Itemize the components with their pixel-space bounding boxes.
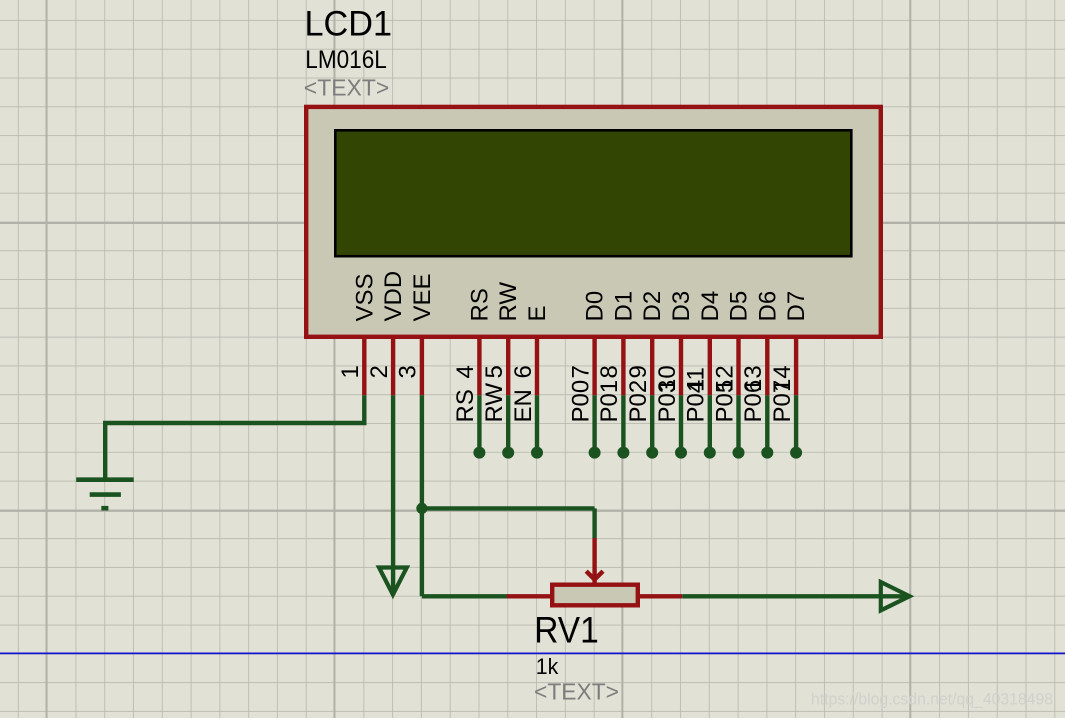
svg-text:VEE: VEE <box>409 273 436 321</box>
svg-text:<TEXT>: <TEXT> <box>534 679 619 705</box>
svg-text:P02: P02 <box>625 380 652 423</box>
svg-text:RV1: RV1 <box>534 610 599 651</box>
svg-text:LCD1: LCD1 <box>305 5 393 44</box>
svg-text:P04: P04 <box>683 380 710 423</box>
svg-text:3: 3 <box>395 365 422 378</box>
svg-text:D4: D4 <box>697 291 724 322</box>
svg-text:RS: RS <box>452 389 479 422</box>
svg-text:8: 8 <box>596 365 623 378</box>
svg-text:EN: EN <box>510 389 537 422</box>
svg-text:D7: D7 <box>783 291 810 322</box>
svg-text:P07: P07 <box>769 380 796 423</box>
svg-text:D2: D2 <box>639 291 666 322</box>
svg-text:6: 6 <box>510 365 537 378</box>
svg-text:<TEXT>: <TEXT> <box>304 75 390 101</box>
svg-text:D5: D5 <box>726 291 753 322</box>
svg-text:1: 1 <box>337 365 364 378</box>
svg-text:P05: P05 <box>711 380 738 423</box>
svg-text:D3: D3 <box>668 291 695 322</box>
svg-text:D1: D1 <box>610 291 637 322</box>
svg-text:5: 5 <box>481 365 508 378</box>
svg-text:P01: P01 <box>596 380 623 423</box>
svg-text:D0: D0 <box>582 291 609 322</box>
svg-text:LM016L: LM016L <box>305 46 387 74</box>
svg-text:P00: P00 <box>567 380 594 423</box>
svg-text:P06: P06 <box>740 380 767 423</box>
svg-text:7: 7 <box>567 365 594 378</box>
svg-text:2: 2 <box>366 365 393 378</box>
svg-text:RW: RW <box>495 282 522 322</box>
svg-text:9: 9 <box>625 365 652 378</box>
svg-text:D6: D6 <box>754 291 781 322</box>
svg-text:P03: P03 <box>654 380 681 423</box>
svg-text:RS: RS <box>466 288 493 321</box>
svg-text:RW: RW <box>481 383 508 423</box>
svg-text:E: E <box>524 305 551 321</box>
svg-text:4: 4 <box>452 365 479 378</box>
svg-text:VDD: VDD <box>380 271 407 322</box>
svg-text:https://blog.csdn.net/qq_40318: https://blog.csdn.net/qq_40318498 <box>811 690 1053 709</box>
svg-text:1k: 1k <box>536 654 559 679</box>
svg-text:VSS: VSS <box>351 273 378 321</box>
